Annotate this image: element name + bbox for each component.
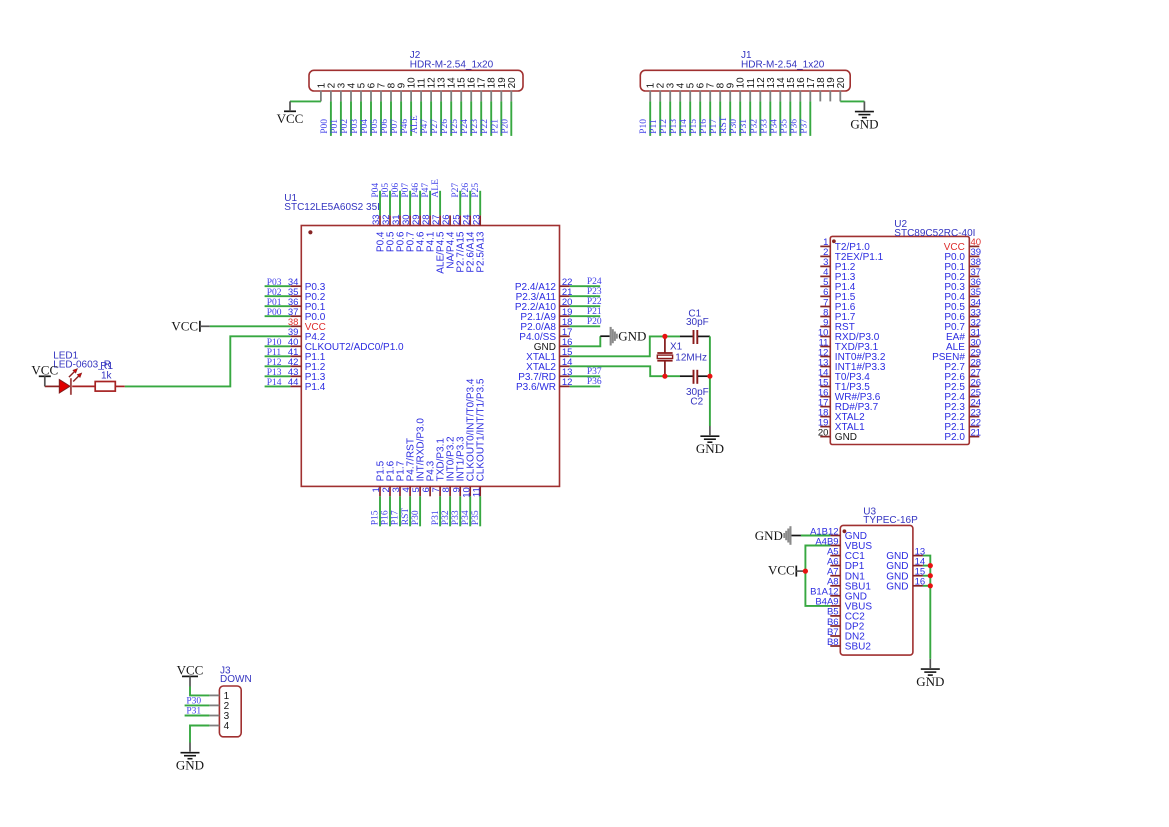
wire net P03 (U1 pin 34) [265, 278, 291, 288]
op-amp U1 STC12LE5A60S2 35I (MCU) [284, 193, 559, 486]
svg-text:TYPEC-16P: TYPEC-16P [863, 515, 918, 526]
wire net P31 (J3 pin3) [185, 707, 210, 717]
wire net P21 (U1 pin 19) [570, 307, 602, 317]
svg-text:P04: P04 [360, 119, 370, 134]
wire net P31 (J1 pin 11) [739, 101, 750, 135]
U3 left pins [810, 526, 872, 652]
wire net P02 (U1 pin 35) [265, 288, 291, 298]
svg-text:X1: X1 [670, 341, 683, 352]
svg-text:P22: P22 [587, 297, 602, 307]
svg-text:P24: P24 [460, 119, 470, 134]
LED LED1 LED-0603_R [45, 351, 111, 395]
wire net P33 (J1 pin 13) [759, 101, 770, 135]
svg-text:GND: GND [176, 758, 204, 773]
svg-text:P26: P26 [461, 183, 471, 198]
wire net P04 (U1 pin 33) [371, 183, 381, 216]
wire net P14 (U1 pin 44) [265, 378, 291, 388]
wire net P03 (J2 pin 5) [350, 101, 361, 135]
svg-text:HDR-M-2.54_1x20: HDR-M-2.54_1x20 [741, 59, 825, 70]
svg-text:P3.6/WR: P3.6/WR [516, 382, 556, 393]
connector J2 HDR-M-2.54_1x20 [309, 50, 523, 91]
wire net RST (J1 pin 9) [719, 101, 730, 135]
wire net P01 (U1 pin 36) [265, 298, 291, 308]
wire net P17 (J1 pin 8) [709, 101, 720, 135]
svg-text:LED-0603_R: LED-0603_R [53, 359, 111, 370]
junction node XTAL2/X1/C2 [662, 374, 667, 379]
wire net P37 (J1 pin 17) [799, 101, 810, 135]
svg-text:P06: P06 [380, 119, 390, 134]
svg-text:P46: P46 [411, 183, 421, 198]
svg-text:P27: P27 [451, 183, 461, 198]
capacitor C2 30pF [680, 370, 710, 408]
svg-text:VCC: VCC [768, 563, 795, 578]
wire net P24 (J2 pin 16) [460, 101, 471, 135]
U1 left pins 34-44 [288, 277, 404, 393]
crystal X1 12MHz [657, 336, 707, 376]
svg-text:P11: P11 [267, 348, 282, 358]
svg-text:P00: P00 [267, 308, 282, 318]
svg-text:VCC: VCC [177, 663, 204, 678]
junction node U3 pin16 [928, 583, 933, 588]
svg-text:P31: P31 [739, 119, 749, 134]
svg-text:21: 21 [971, 427, 982, 438]
wire net P13 (J1 pin 4) [669, 101, 680, 135]
svg-text:ALE: ALE [410, 115, 420, 134]
svg-text:P11: P11 [649, 119, 659, 134]
svg-text:GND: GND [835, 432, 857, 443]
wire net P11 (J1 pin 2) [649, 101, 660, 135]
wire net P00 (U1 pin 37) [265, 308, 291, 318]
svg-text:P00: P00 [320, 119, 330, 134]
wire net P00 (J2 pin 2) [320, 101, 331, 135]
svg-text:P24: P24 [587, 277, 602, 287]
wire XTAL1 (U1 pin15 to X1/C1) [570, 336, 680, 356]
svg-text:ALE: ALE [431, 179, 441, 198]
wire U3 A1B12 to GND flag [801, 535, 830, 537]
svg-text:P35: P35 [779, 119, 789, 134]
svg-text:P17: P17 [391, 510, 401, 525]
wire net P27 (J2 pin 13) [430, 101, 441, 135]
svg-text:P36: P36 [789, 119, 799, 134]
J2 pin numbers 1-20 [316, 77, 517, 89]
wire J1 pin20 to GND [840, 100, 864, 102]
wire U1 pin38 to VCC [210, 325, 290, 327]
wire net P34 (J1 pin 14) [769, 101, 780, 135]
wire net P06 (J2 pin 8) [380, 101, 391, 135]
wire net P34 (U1 pin 10) [461, 496, 471, 526]
wire net P30 (J1 pin 10) [729, 101, 740, 135]
svg-text:P23: P23 [470, 119, 480, 134]
svg-text:P05: P05 [381, 183, 391, 198]
svg-text:P15: P15 [689, 119, 699, 134]
wire net P12 (J1 pin 3) [659, 101, 670, 135]
svg-text:P01: P01 [267, 298, 282, 308]
svg-text:20: 20 [836, 77, 847, 89]
U2 left pins 1-20 [818, 237, 886, 443]
svg-text:23: 23 [471, 214, 482, 225]
J1 pin numbers 1-20 [646, 77, 847, 89]
power flag VCC (LED1 anode) [31, 362, 58, 386]
wire net P25 (J2 pin 15) [450, 101, 461, 135]
wire net P16 (U1 pin 2) [381, 496, 391, 526]
svg-text:30pF: 30pF [686, 317, 709, 328]
svg-text:P34: P34 [769, 119, 779, 134]
svg-text:P47: P47 [421, 183, 431, 198]
svg-text:P01: P01 [330, 119, 340, 134]
wire net P32 (U1 pin 8) [441, 496, 451, 526]
wire net P11 (U1 pin 41) [265, 348, 291, 358]
svg-text:P02: P02 [267, 288, 282, 298]
svg-text:P21: P21 [587, 307, 602, 317]
wire J2 pin1 to VCC [290, 100, 321, 102]
wire net P26 (J2 pin 14) [440, 101, 451, 135]
svg-text:P37: P37 [587, 367, 602, 377]
wire net P47 (J2 pin 12) [420, 101, 431, 135]
wire net P26 (U1 pin 24) [461, 183, 471, 216]
svg-text:P20: P20 [500, 119, 510, 134]
svg-text:P12: P12 [267, 358, 282, 368]
wire XTAL2 (U1 pin14 to X1/C2) [570, 366, 680, 376]
svg-text:GND: GND [755, 528, 783, 543]
svg-text:VCC: VCC [31, 362, 58, 377]
ground GND (crystal circuit) [696, 426, 724, 456]
svg-text:20: 20 [507, 77, 518, 89]
J1 pin stubs [650, 91, 840, 102]
svg-text:P12: P12 [659, 119, 669, 134]
svg-text:P14: P14 [679, 119, 689, 134]
U2 right pins 40-21 [932, 237, 981, 443]
junction node U3 pin14 [928, 563, 933, 568]
wire net P35 (J1 pin 15) [779, 101, 790, 135]
svg-text:VCC: VCC [171, 319, 198, 334]
wire net ALE (U1 pin 27) [431, 179, 441, 215]
svg-text:STC89C52RC-40I: STC89C52RC-40I [894, 228, 975, 239]
power flag VCC (U3 VBUS) [768, 563, 805, 578]
svg-text:P32: P32 [749, 119, 759, 134]
svg-text:VCC: VCC [277, 111, 304, 126]
wire net P04 (J2 pin 6) [360, 101, 371, 135]
svg-text:12MHz: 12MHz [675, 353, 707, 364]
wire net P27 (U1 pin 25) [451, 183, 461, 216]
power flag GND (U3 A1B12) [755, 526, 801, 545]
wire net P20 (J2 pin 20) [500, 101, 511, 135]
svg-text:P25: P25 [471, 183, 481, 198]
wire net P15 (J1 pin 6) [689, 101, 700, 135]
wire U3 pins 13-16 to GND [923, 556, 930, 659]
svg-text:P36: P36 [587, 377, 602, 387]
U1 right pins 22-12 [515, 277, 573, 393]
U1 top pins 33-23 [371, 214, 487, 273]
wire net P06 (U1 pin 31) [391, 183, 401, 216]
ground GND (J1 pin20) [850, 101, 878, 131]
power flag VCC (U1 pin38) [171, 319, 209, 334]
wire C1/C2 right to GND [709, 336, 711, 426]
J3 pin numbers 1-4 [209, 691, 229, 732]
svg-text:P07: P07 [390, 119, 400, 134]
svg-text:P46: P46 [400, 119, 410, 134]
svg-text:P33: P33 [759, 119, 769, 134]
wire net P07 (J2 pin 9) [390, 101, 401, 135]
wire net P30 (U1 pin 5) [411, 496, 421, 526]
svg-text:GND: GND [850, 117, 878, 132]
svg-text:P34: P34 [461, 510, 471, 525]
svg-text:P16: P16 [381, 510, 391, 525]
svg-text:SBU2: SBU2 [845, 642, 872, 653]
svg-text:P27: P27 [430, 119, 440, 134]
wire net P31 (U1 pin 7) [431, 496, 441, 526]
svg-text:RST: RST [719, 116, 729, 134]
svg-text:STC12LE5A60S2 35I: STC12LE5A60S2 35I [284, 202, 380, 213]
svg-text:P21: P21 [490, 119, 500, 134]
svg-text:P06: P06 [391, 183, 401, 198]
wire net P36 (J1 pin 16) [789, 101, 800, 135]
svg-text:P23: P23 [587, 287, 602, 297]
wire VCC to U3 VBUS pins [805, 546, 830, 606]
svg-text:HDR-M-2.54_1x20: HDR-M-2.54_1x20 [410, 59, 494, 70]
svg-text:P16: P16 [699, 119, 709, 134]
connector U3 TYPEC-16P [840, 506, 918, 655]
svg-text:P17: P17 [709, 119, 719, 134]
svg-text:RST: RST [401, 508, 411, 526]
svg-text:P33: P33 [451, 510, 461, 525]
svg-text:1k: 1k [101, 370, 113, 381]
junction node U3 VCC [803, 569, 808, 574]
svg-text:P20: P20 [587, 317, 602, 327]
resistor R1 1k [72, 361, 125, 391]
svg-text:P2.0: P2.0 [944, 432, 965, 443]
svg-text:P05: P05 [370, 119, 380, 134]
svg-text:GND: GND [886, 581, 908, 592]
svg-text:P31: P31 [431, 510, 441, 525]
wire net P21 (J2 pin 19) [490, 101, 501, 135]
power flag GND (U1 pin16) [600, 327, 646, 346]
svg-text:GND: GND [916, 674, 944, 689]
svg-text:P10: P10 [639, 119, 649, 134]
svg-text:B8: B8 [827, 637, 839, 648]
svg-text:P31: P31 [186, 707, 201, 717]
wire J3 pin4 to GND [190, 726, 209, 743]
wire net P23 (U1 pin 21) [570, 287, 602, 297]
power flag VCC (J3 pin1) [177, 663, 204, 687]
svg-text:P2.5/A13: P2.5/A13 [476, 231, 487, 273]
wire net ALE (J2 pin 11) [410, 101, 421, 135]
svg-text:P07: P07 [401, 183, 411, 198]
svg-text:P13: P13 [669, 119, 679, 134]
svg-text:GND: GND [618, 329, 646, 344]
wire net P33 (U1 pin 9) [451, 496, 461, 526]
wire net P25 (U1 pin 23) [471, 183, 481, 216]
svg-text:P15: P15 [371, 510, 381, 525]
svg-text:CLKOUT1/INT/T1/P3.5: CLKOUT1/INT/T1/P3.5 [476, 378, 487, 481]
wire net P46 (U1 pin 29) [411, 183, 421, 216]
svg-text:P30: P30 [186, 696, 201, 706]
svg-text:P13: P13 [267, 368, 282, 378]
wire net P32 (J1 pin 12) [749, 101, 760, 135]
power flag VCC (J2 pin1) [277, 101, 304, 125]
svg-text:20: 20 [818, 427, 829, 438]
svg-text:P1.4: P1.4 [305, 382, 326, 393]
wire net P02 (J2 pin 4) [340, 101, 351, 135]
svg-text:P03: P03 [267, 278, 282, 288]
wire net P12 (U1 pin 42) [265, 358, 291, 368]
svg-text:P10: P10 [267, 338, 282, 348]
svg-text:GND: GND [696, 441, 724, 456]
svg-text:P22: P22 [480, 119, 490, 134]
svg-text:4: 4 [224, 721, 230, 732]
ground GND (U3 right) [916, 659, 944, 689]
svg-text:P26: P26 [440, 119, 450, 134]
wire net P46 (J2 pin 10) [400, 101, 411, 135]
wire net P20 (U1 pin 18) [570, 317, 602, 327]
wire net P10 (J1 pin 1) [639, 101, 650, 135]
junction node U3 pin15 [928, 573, 933, 578]
connector J1 HDR-M-2.54_1x20 [640, 50, 850, 91]
svg-text:P02: P02 [340, 119, 350, 134]
svg-text:P25: P25 [450, 119, 460, 134]
wire U1 pin16 to GND [570, 336, 601, 346]
svg-text:P30: P30 [411, 510, 421, 525]
wire net P36 (U1 pin 12) [570, 377, 602, 387]
wire J3 pin1 to VCC [190, 687, 209, 696]
wire net P22 (U1 pin 20) [570, 297, 602, 307]
wire net P01 (J2 pin 3) [330, 101, 341, 135]
wire net P10 (U1 pin 40) [265, 338, 291, 348]
wire net P13 (U1 pin 43) [265, 368, 291, 378]
op-amp U2 STC89C52RC-40I (MCU) [830, 219, 975, 445]
U1 bottom pins 1-11 [371, 378, 487, 498]
wire net P15 (U1 pin 1) [371, 496, 381, 526]
wire net P47 (U1 pin 28) [421, 183, 431, 216]
wire net P42 (U1 pin39 to R1) [125, 336, 291, 386]
svg-text:P47: P47 [420, 119, 430, 134]
svg-text:P14: P14 [267, 378, 282, 388]
wire net P35 (U1 pin 11) [471, 496, 481, 526]
wire net P30 (J3 pin2) [185, 696, 210, 706]
wire net P16 (J1 pin 7) [699, 101, 710, 135]
junction node XTAL1/X1/C1 [662, 334, 667, 339]
wire net P37 (U1 pin 13) [570, 367, 602, 377]
junction node C2/GND wire [707, 374, 712, 379]
svg-text:P30: P30 [729, 119, 739, 134]
wire net P22 (J2 pin 18) [480, 101, 491, 135]
connector J3 DOWN [219, 666, 251, 737]
wire net RST (U1 pin 4) [401, 496, 411, 526]
wire net P24 (U1 pin 22) [570, 277, 602, 287]
wire net P23 (J2 pin 17) [470, 101, 481, 135]
wire net P05 (U1 pin 32) [381, 183, 391, 216]
svg-text:C2: C2 [690, 397, 703, 408]
svg-text:P35: P35 [471, 510, 481, 525]
svg-text:DOWN: DOWN [220, 674, 252, 685]
wire net P05 (J2 pin 7) [370, 101, 381, 135]
svg-text:P03: P03 [350, 119, 360, 134]
svg-text:P37: P37 [799, 119, 809, 134]
J2 pin stubs [321, 91, 511, 102]
U3 right pins 13-16 [886, 546, 925, 592]
svg-text:P32: P32 [441, 510, 451, 525]
wire net P07 (U1 pin 30) [401, 183, 411, 216]
svg-text:11: 11 [471, 487, 482, 497]
wire net P17 (U1 pin 3) [391, 496, 401, 526]
ground GND (J3 pin4) [176, 743, 204, 773]
svg-text:P04: P04 [371, 183, 381, 198]
wire net P14 (J1 pin 5) [679, 101, 690, 135]
capacitor C1 30pF [680, 308, 710, 344]
